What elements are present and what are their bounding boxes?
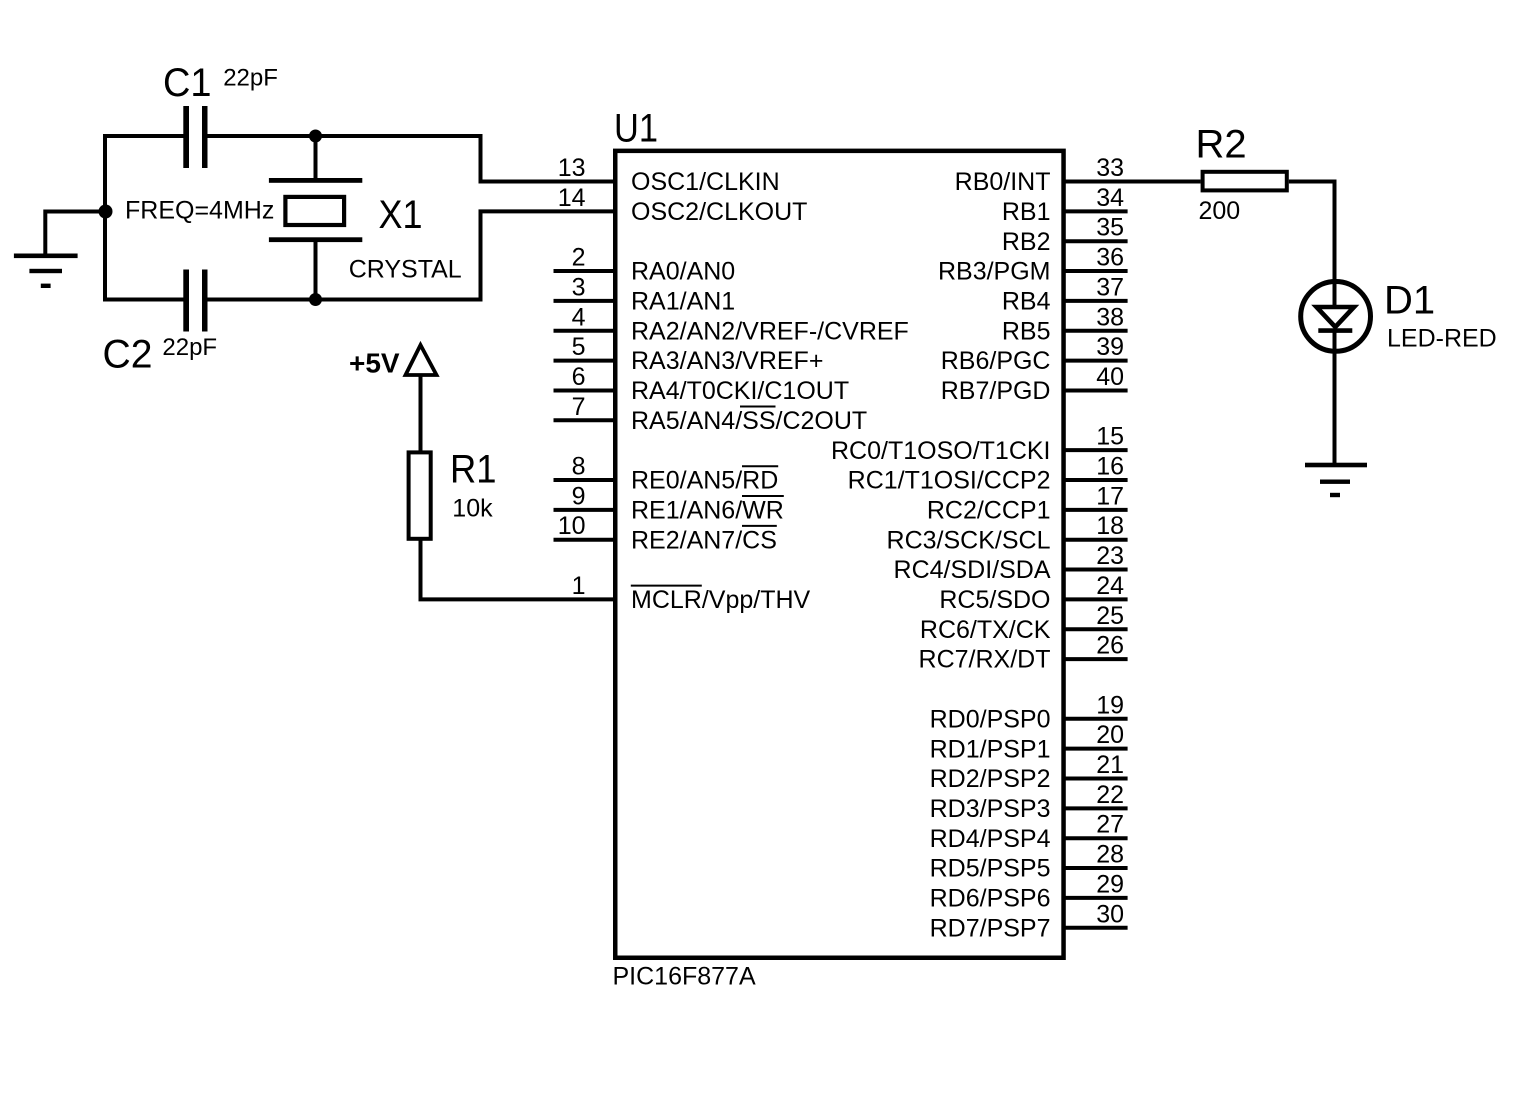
wire pin 8 stub <box>554 478 616 482</box>
svg-text:CRYSTAL: CRYSTAL <box>349 255 462 283</box>
svg-text:24: 24 <box>1096 572 1124 600</box>
capacitor C1 <box>183 106 207 168</box>
ground symbol right <box>1305 463 1367 497</box>
wire ground branch <box>45 212 105 254</box>
wire pin 20 stub <box>1064 747 1128 751</box>
svg-text:U1: U1 <box>614 106 658 150</box>
wire pin 7 stub <box>554 418 616 422</box>
svg-text:29: 29 <box>1096 870 1124 898</box>
svg-text:RE2/AN7/CS: RE2/AN7/CS <box>631 526 777 554</box>
wire pin 28 stub <box>1064 866 1128 870</box>
svg-text:RB1: RB1 <box>1002 198 1051 226</box>
wire crystal top stub <box>314 136 318 179</box>
svg-text:MCLR/Vpp/THV: MCLR/Vpp/THV <box>631 586 811 614</box>
wire pin 26 stub <box>1064 657 1128 661</box>
wire pin 16 stub <box>1064 478 1128 482</box>
svg-text:RB7/PGD: RB7/PGD <box>941 377 1051 405</box>
wire LED cathode to ground <box>1333 331 1337 465</box>
svg-text:35: 35 <box>1096 214 1124 242</box>
svg-text:RC6/TX/CK: RC6/TX/CK <box>920 616 1051 644</box>
wire pin 18 stub <box>1064 538 1128 542</box>
pin label overline for RE2/AN7/CS <box>742 525 777 527</box>
pin label overline for RE0/AN5/RD <box>742 465 778 467</box>
svg-text:R1: R1 <box>450 447 497 491</box>
pin label overline for RA5/AN4/SS/C2OUT <box>740 406 776 408</box>
svg-text:FREQ=4MHz: FREQ=4MHz <box>125 197 274 225</box>
svg-text:RC4/SDI/SDA: RC4/SDI/SDA <box>894 556 1051 584</box>
wire pin 37 stub <box>1064 299 1128 303</box>
pin label overline for MCLR/Vpp/THV <box>631 585 702 587</box>
svg-text:27: 27 <box>1096 811 1124 839</box>
svg-text:RB4: RB4 <box>1002 288 1051 316</box>
svg-text:34: 34 <box>1096 184 1124 212</box>
wire pin 10 stub <box>554 538 616 542</box>
svg-text:RA3/AN3/VREF+: RA3/AN3/VREF+ <box>631 347 823 375</box>
wire OSC2 net from C2 to pin 14 <box>207 211 616 299</box>
wire pin 19 stub <box>1064 717 1128 721</box>
svg-text:RB6/PGC: RB6/PGC <box>941 347 1051 375</box>
wire pin 23 stub <box>1064 568 1128 572</box>
svg-text:RB2: RB2 <box>1002 228 1051 256</box>
svg-text:RA2/AN2/VREF-/CVREF: RA2/AN2/VREF-/CVREF <box>631 317 909 345</box>
svg-text:15: 15 <box>1096 423 1124 451</box>
svg-text:8: 8 <box>572 453 586 481</box>
svg-text:23: 23 <box>1096 542 1124 570</box>
svg-text:38: 38 <box>1096 303 1124 331</box>
svg-text:6: 6 <box>572 363 586 391</box>
wire pin 9 stub <box>554 508 616 512</box>
wire pin 35 stub <box>1064 239 1128 243</box>
svg-text:19: 19 <box>1096 691 1124 719</box>
svg-text:22pF: 22pF <box>223 65 278 92</box>
wire pin 6 stub <box>554 388 616 392</box>
svg-text:D1: D1 <box>1384 279 1435 323</box>
svg-text:RB5: RB5 <box>1002 317 1051 345</box>
wire crystal bottom stub <box>314 242 318 300</box>
wire LED anode inside <box>1333 279 1337 307</box>
wire pin 40 stub <box>1064 388 1128 392</box>
svg-text:RD4/PSP4: RD4/PSP4 <box>930 825 1051 853</box>
svg-text:39: 39 <box>1096 333 1124 361</box>
wire pin 36 stub <box>1064 269 1128 273</box>
svg-text:22: 22 <box>1096 781 1124 809</box>
svg-text:LED-RED: LED-RED <box>1387 324 1497 352</box>
svg-text:14: 14 <box>558 184 586 212</box>
node junction C1/X1/OSC1 <box>309 130 322 143</box>
svg-text:10k: 10k <box>452 494 493 522</box>
wire pin 29 stub <box>1064 896 1128 900</box>
svg-text:RD2/PSP2: RD2/PSP2 <box>930 765 1051 793</box>
svg-text:RC0/T1OSO/T1CKI: RC0/T1OSO/T1CKI <box>831 437 1051 465</box>
svg-text:RE0/AN5/RD: RE0/AN5/RD <box>631 467 778 495</box>
svg-text:10: 10 <box>558 512 586 540</box>
wire pin 22 stub <box>1064 806 1128 810</box>
svg-text:OSC1/CLKIN: OSC1/CLKIN <box>631 168 780 196</box>
svg-text:22pF: 22pF <box>162 334 217 361</box>
node junction ground/C1/C2 <box>99 205 113 219</box>
resistor R1 body <box>409 452 431 538</box>
power +5V symbol <box>406 345 437 375</box>
svg-text:RC5/SDO: RC5/SDO <box>939 586 1050 614</box>
svg-text:R2: R2 <box>1196 123 1247 167</box>
svg-text:3: 3 <box>572 273 586 301</box>
svg-text:200: 200 <box>1199 197 1241 225</box>
wire pin 33 to R2 <box>1064 180 1201 184</box>
svg-text:X1: X1 <box>379 193 423 237</box>
wire R2 to LED D1 <box>1289 182 1335 282</box>
svg-text:33: 33 <box>1096 154 1124 182</box>
svg-text:RB0/INT: RB0/INT <box>955 168 1051 196</box>
crystal X1 <box>269 178 362 242</box>
svg-text:RD1/PSP1: RD1/PSP1 <box>930 735 1051 763</box>
svg-text:25: 25 <box>1096 602 1124 630</box>
node junction C2/X1/OSC2 <box>309 293 322 306</box>
wire pin 39 stub <box>1064 359 1128 363</box>
wire +5V to R1 <box>419 375 423 452</box>
svg-text:RA1/AN1: RA1/AN1 <box>631 288 735 316</box>
wire pin 27 stub <box>1064 836 1128 840</box>
svg-text:RA0/AN0: RA0/AN0 <box>631 258 735 286</box>
svg-text:RD6/PSP6: RD6/PSP6 <box>930 885 1051 913</box>
svg-text:1: 1 <box>572 572 586 600</box>
ground symbol left <box>14 254 78 289</box>
LED D1 <box>1301 282 1371 352</box>
svg-text:28: 28 <box>1096 841 1124 869</box>
svg-text:21: 21 <box>1096 751 1124 779</box>
wire pin 5 stub <box>554 359 616 363</box>
wire pin 2 stub <box>554 269 616 273</box>
svg-text:36: 36 <box>1096 244 1124 272</box>
svg-text:+5V: +5V <box>349 348 400 379</box>
wire pin 4 stub <box>554 329 616 333</box>
svg-text:RD7/PSP7: RD7/PSP7 <box>930 914 1051 942</box>
svg-text:16: 16 <box>1096 453 1124 481</box>
wire pin 3 stub <box>554 299 616 303</box>
svg-text:RC2/CCP1: RC2/CCP1 <box>927 496 1051 524</box>
svg-text:C1: C1 <box>163 61 212 105</box>
svg-text:RE1/AN6/WR: RE1/AN6/WR <box>631 496 784 524</box>
svg-text:RC7/RX/DT: RC7/RX/DT <box>919 646 1051 674</box>
svg-text:30: 30 <box>1096 900 1124 928</box>
svg-text:7: 7 <box>572 393 586 421</box>
svg-text:RD3/PSP3: RD3/PSP3 <box>930 795 1051 823</box>
svg-text:OSC2/CLKOUT: OSC2/CLKOUT <box>631 198 807 226</box>
svg-text:9: 9 <box>572 482 586 510</box>
wire pin 24 stub <box>1064 597 1128 601</box>
wire pin 30 stub <box>1064 926 1128 930</box>
wire pin 25 stub <box>1064 627 1128 631</box>
svg-text:RC3/SCK/SCL: RC3/SCK/SCL <box>887 526 1051 554</box>
resistor R2 body <box>1203 172 1287 191</box>
svg-text:5: 5 <box>572 333 586 361</box>
wire pin 34 stub <box>1064 209 1128 213</box>
svg-text:37: 37 <box>1096 273 1124 301</box>
wire pin 21 stub <box>1064 777 1128 781</box>
svg-text:26: 26 <box>1096 632 1124 660</box>
svg-text:RB3/PGM: RB3/PGM <box>938 258 1051 286</box>
svg-text:17: 17 <box>1096 482 1124 510</box>
pin label overline for RE1/AN6/WR <box>742 495 784 497</box>
op-amp U1 PIC16F877A body <box>615 151 1063 958</box>
svg-text:PIC16F877A: PIC16F877A <box>613 962 756 990</box>
svg-text:RD0/PSP0: RD0/PSP0 <box>930 705 1051 733</box>
svg-text:RA4/T0CKI/C1OUT: RA4/T0CKI/C1OUT <box>631 377 849 405</box>
svg-text:40: 40 <box>1096 363 1124 391</box>
wire pin 17 stub <box>1064 508 1128 512</box>
svg-text:13: 13 <box>558 154 586 182</box>
svg-text:18: 18 <box>1096 512 1124 540</box>
wire R1 to pin 1 MCLR <box>421 539 616 599</box>
svg-text:RA5/AN4/SS/C2OUT: RA5/AN4/SS/C2OUT <box>631 407 867 435</box>
svg-text:RD5/PSP5: RD5/PSP5 <box>930 855 1051 883</box>
wire pin 38 stub <box>1064 329 1128 333</box>
capacitor C2 <box>183 270 207 332</box>
wire OSC1 net from C1 to pin 13 <box>207 136 616 182</box>
svg-text:RC1/T1OSI/CCP2: RC1/T1OSI/CCP2 <box>848 467 1051 495</box>
svg-text:20: 20 <box>1096 721 1124 749</box>
svg-text:4: 4 <box>572 303 586 331</box>
wire top net: left cap C1 row <box>105 136 184 300</box>
svg-text:C2: C2 <box>103 332 153 376</box>
wire pin 15 stub <box>1064 448 1128 452</box>
svg-text:2: 2 <box>572 244 586 272</box>
